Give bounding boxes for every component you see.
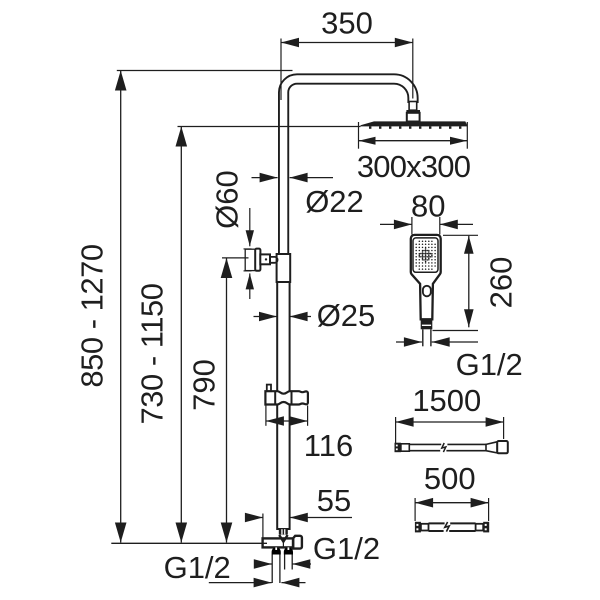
hand shower spray dots — [419, 240, 421, 242]
dimension G1/2 bottom arrows — [209, 582, 272, 584]
lower column tube — [277, 282, 289, 529]
overhead shower ball joint body — [407, 113, 420, 122]
mixer funnel stem — [282, 542, 284, 548]
hand shower thread lines — [422, 329, 424, 346]
hose right cone — [486, 442, 497, 453]
svg-text:80: 80 — [411, 189, 445, 224]
mixer body — [263, 538, 294, 547]
svg-text:1500: 1500 — [412, 383, 481, 418]
hose left end cap — [395, 443, 401, 453]
dimension 55 arrows — [246, 517, 263, 519]
mixer side outlet block — [293, 536, 302, 549]
dimension 730-1150 top extension — [178, 126, 361, 128]
wall bar break symbol — [445, 522, 449, 532]
hand shower spray diamond pattern — [425, 248, 427, 250]
mixer right tail thread — [284, 555, 286, 570]
slider holder knob — [267, 385, 271, 392]
flange top extent tick — [244, 248, 252, 250]
wall bracket cylinder — [260, 254, 270, 264]
hand shower button slot — [423, 286, 431, 297]
dimension G1/2 inlet arrows — [258, 563, 272, 565]
mixer left inlet dome — [272, 547, 281, 554]
svg-text:790: 790 — [187, 359, 222, 411]
dimension 1500 extensions — [395, 417, 397, 444]
slider holder body — [265, 391, 308, 404]
svg-text:730 - 1150: 730 - 1150 — [135, 283, 170, 424]
dimension 55 left extension — [262, 514, 264, 539]
mixer right inlet dome — [284, 547, 293, 554]
dimension Ø22 arrows — [252, 177, 278, 179]
collar joint of telescopic column — [277, 254, 291, 282]
dimension 350 line — [281, 42, 413, 44]
shower column riser pipe and top arm — [284, 79, 413, 255]
hose break symbol — [442, 443, 446, 452]
slider holder divider right — [291, 391, 293, 404]
dimension 790 line — [226, 258, 228, 543]
hand shower connector nut dark — [421, 319, 433, 329]
dimension Ø60 leader bottom — [249, 273, 251, 299]
svg-text:55: 55 — [317, 483, 351, 518]
wall bar tube — [429, 522, 445, 524]
wall bar left cap — [415, 522, 421, 533]
dimension 80 extensions — [411, 217, 413, 235]
mixer funnel V — [279, 535, 287, 542]
svg-text:G1/2: G1/2 — [164, 550, 231, 585]
dimension 500 extensions — [414, 498, 416, 521]
mixer connection nut (knurled) — [279, 529, 288, 535]
svg-text:500: 500 — [424, 461, 476, 496]
bottom reference baseline / G1/2 leader — [111, 542, 267, 544]
wall bracket plate — [245, 249, 255, 270]
slider holder pipe mask — [276, 391, 291, 405]
svg-text:300x300: 300x300 — [357, 149, 471, 184]
dimension 1500 line — [396, 421, 504, 423]
dimension 730-1150 line — [180, 127, 182, 543]
dimension 300x300 extensions — [358, 122, 360, 149]
dimension 350 right extension — [412, 39, 414, 99]
wall bar right bracket — [476, 524, 484, 531]
svg-text:350: 350 — [321, 6, 373, 41]
dimension 790 top extension — [222, 257, 249, 259]
slider holder divider left — [274, 391, 276, 404]
flange bottom extent tick — [244, 270, 252, 272]
wall bracket flange disc — [255, 249, 260, 271]
dimension Ø60 leader top — [249, 208, 251, 246]
hand shower outline — [411, 235, 441, 319]
wall bar left bracket — [421, 524, 429, 531]
mixer left tail thread — [271, 555, 273, 584]
dimension 350 left extension — [280, 39, 282, 101]
svg-text:G1/2: G1/2 — [456, 347, 523, 382]
hose left nut — [401, 444, 409, 451]
hand shower spray face — [413, 238, 438, 272]
dimension 260 line — [468, 236, 470, 327]
svg-text:116: 116 — [304, 428, 353, 463]
overhead shower head plate 300x300 — [361, 121, 468, 126]
dimension G1/2 hand shower arrows — [396, 341, 422, 343]
wall bar right cap — [483, 522, 489, 533]
dimension 260 extensions — [443, 234, 478, 236]
dimension 500 line — [415, 502, 489, 504]
dimension 116 line — [266, 420, 308, 422]
dimension 80 arrows — [380, 223, 412, 225]
dimension 850-1270 line — [120, 71, 122, 543]
dimension 116 extensions — [265, 406, 267, 426]
hose right cap — [497, 441, 508, 453]
wall bracket nipple — [270, 257, 278, 263]
overhead shower ball joint dark band — [406, 110, 420, 113]
overhead shower connector collar — [409, 102, 417, 111]
svg-text:Ø22: Ø22 — [305, 184, 364, 219]
dimension Ø25 arrows — [254, 316, 278, 318]
overhead shower nozzles — [369, 126, 371, 128]
dimension 300x300 line — [359, 140, 468, 142]
svg-text:260: 260 — [483, 257, 518, 309]
svg-text:Ø60: Ø60 — [210, 170, 245, 229]
dimension 850-1270 top extension — [117, 70, 293, 72]
svg-text:Ø25: Ø25 — [317, 298, 376, 333]
wall bracket screw dot — [265, 258, 267, 260]
hose body — [409, 443, 441, 445]
svg-text:G1/2: G1/2 — [313, 531, 380, 566]
svg-text:850 - 1270: 850 - 1270 — [75, 244, 110, 387]
